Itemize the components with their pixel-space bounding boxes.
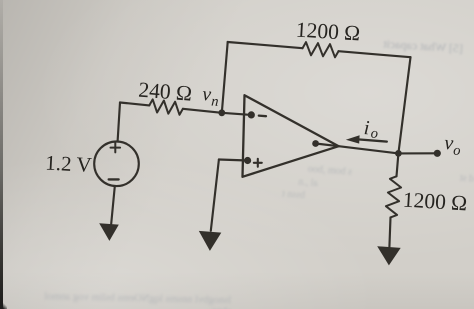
current io arrowhead [346, 135, 360, 143]
dark page edge left [0, 0, 3, 309]
ground G1 below source [99, 223, 119, 241]
op-amp minus sign [259, 114, 266, 117]
wire feedback top left [228, 42, 303, 48]
ground G2 below non-inverting input [199, 231, 222, 251]
resistor R2 1200 ohm feedback zigzag [303, 42, 339, 57]
op-amp U1 triangle [243, 95, 339, 177]
svg-text:1.2 V: 1.2 V [45, 151, 92, 177]
wire non-inverting vertical down [211, 160, 219, 231]
wire source top to corner [118, 103, 120, 142]
wire node vo to terminal [398, 152, 437, 154]
op-amp inverting input dot [248, 111, 255, 118]
wire op-amp output to node vo [339, 146, 399, 153]
resistor RL 1200 ohm zigzag [386, 176, 401, 217]
wire load resistor top [397, 153, 399, 176]
wire load resistor bottom [389, 217, 390, 247]
op-amp plus sign [254, 159, 262, 167]
wire R1 to node vn [183, 109, 222, 113]
wire feedback right vertical [398, 57, 410, 153]
voltage source V1 circle [94, 142, 139, 187]
wire non-inverting corner to input [219, 160, 248, 161]
dark corner bottom-left [0, 302, 7, 309]
svg-text:i: i [363, 117, 370, 139]
svg-text:1200 Ω: 1200 Ω [402, 188, 468, 216]
op-amp output dot [312, 140, 319, 147]
voltage source minus sign [109, 178, 119, 180]
svg-text:n: n [211, 94, 219, 110]
op-amp output internal wire [316, 144, 339, 147]
ghost show-through text mid right [272, 161, 353, 178]
ghost show-through text bottom left [26, 291, 231, 309]
voltage source plus sign [111, 143, 121, 153]
wire node vn to op-amp inverting input [222, 113, 252, 115]
svg-text:o: o [453, 143, 461, 159]
terminal vo dot [434, 150, 441, 157]
wire corner to resistor R1 [120, 103, 149, 106]
wire feedback left vertical [222, 42, 228, 113]
svg-text:240 Ω: 240 Ω [138, 78, 193, 106]
op-amp non-inverting input dot [244, 157, 251, 164]
node vn dot [218, 109, 225, 116]
wire source bottom [111, 186, 115, 224]
current io arrow shaft [358, 139, 387, 141]
ghost show-through text top right [353, 35, 464, 57]
ground G3 below load resistor [377, 246, 401, 265]
svg-text:1200 Ω: 1200 Ω [295, 18, 361, 46]
wire feedback top right [339, 51, 411, 57]
svg-text:o: o [370, 126, 378, 142]
node vo dot [395, 150, 402, 157]
resistor R1 240 ohm zigzag [149, 99, 183, 114]
